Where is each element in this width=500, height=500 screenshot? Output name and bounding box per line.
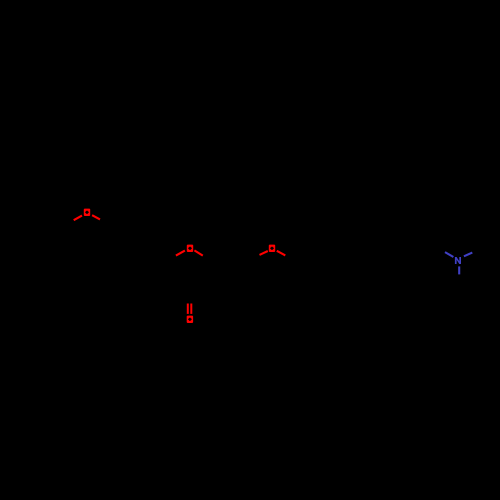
atom label O (ring oxygen) <box>187 245 193 252</box>
wire: pyran ring O right half-bond <box>194 250 202 255</box>
wire: N half-bond to methyl (down) <box>458 266 460 274</box>
wire: N half-bond to alkyl chain (up-left) <box>445 252 453 257</box>
wire: N half-bond to methyl (up-right) <box>464 253 472 257</box>
wire: alkoxy O left half-bond <box>260 251 268 255</box>
atom label O (alkoxy oxygen) <box>269 245 275 252</box>
wire: benzyl O right half-bond (O-C aryl) <box>92 215 100 219</box>
wire: benzyl O left half-bond (O-CH2) <box>74 216 82 221</box>
wire: ketone C=O double bond, left line (O half) <box>187 304 189 314</box>
wire: ketone C=O double bond, right line (O half) <box>190 304 192 314</box>
atom label N (dimethylamino nitrogen) <box>455 257 461 264</box>
wire: alkoxy O right half-bond <box>277 251 286 256</box>
atom label O (ketone oxygen) <box>187 316 193 323</box>
wire: pyran ring O left half-bond <box>176 251 185 256</box>
atom label O (benzyloxy oxygen) <box>84 209 90 216</box>
